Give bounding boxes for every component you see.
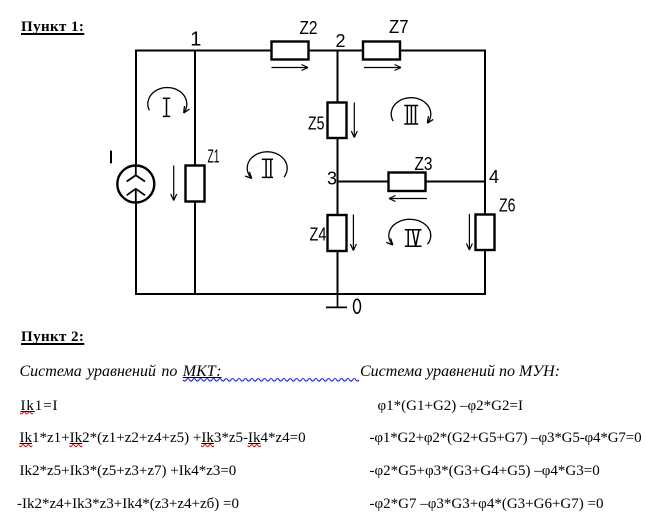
svg-text:4: 4 — [489, 167, 499, 187]
svg-text:3: 3 — [327, 168, 337, 188]
svg-text:Z6: Z6 — [499, 195, 516, 215]
svg-text:Z5: Z5 — [308, 114, 325, 134]
svg-text:Z3: Z3 — [415, 154, 433, 174]
svg-text:Z2: Z2 — [300, 18, 318, 38]
svg-text:Z4: Z4 — [310, 224, 327, 244]
svg-text:2: 2 — [336, 31, 346, 51]
svg-text:Z1: Z1 — [208, 147, 220, 167]
svg-text:1: 1 — [190, 29, 201, 51]
svg-text:Z7: Z7 — [389, 17, 409, 37]
